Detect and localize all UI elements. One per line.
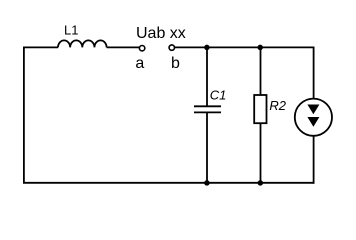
wire C1 branch upper: [206, 47, 208, 106]
wire right vertical lower: [313, 136, 315, 184]
inductor L1: [58, 40, 107, 47]
wire R2 branch upper: [260, 47, 262, 95]
svg-text:a: a: [135, 55, 144, 72]
wire left vertical: [23, 47, 25, 182]
node junction top C1: [204, 45, 210, 51]
svg-text:R2: R2: [269, 98, 286, 113]
wire right vertical upper: [313, 47, 315, 99]
wire R2 branch lower: [260, 123, 262, 183]
current source I1: [295, 99, 332, 136]
node junction bottom C1: [204, 180, 210, 186]
svg-text:L1: L1: [64, 23, 78, 38]
svg-text:C1: C1: [210, 88, 227, 103]
capacitor C1: [194, 106, 221, 112]
wire C1 branch lower: [206, 112, 208, 182]
resistor R2: [254, 95, 266, 123]
wire top left segment: [23, 46, 58, 48]
svg-text:Uab xx: Uab xx: [136, 25, 186, 42]
terminal a: [139, 46, 144, 51]
terminal b: [169, 45, 174, 50]
wire inductor to terminal a: [107, 46, 140, 48]
node junction top R2: [257, 45, 263, 51]
wire b to top right corner: [175, 46, 315, 48]
svg-text:b: b: [171, 55, 180, 72]
node junction bottom R2: [258, 180, 264, 186]
wire bottom: [23, 182, 315, 184]
